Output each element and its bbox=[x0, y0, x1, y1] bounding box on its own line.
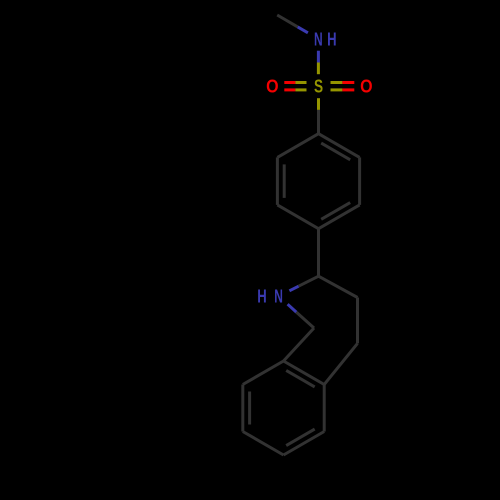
svg-text:H: H bbox=[257, 288, 266, 308]
aromatic inner double-bond lines (lower ring) bbox=[286, 370, 315, 387]
svg-text:N: N bbox=[274, 287, 283, 307]
bond N-S bbox=[317, 51, 320, 63]
svg-text:O: O bbox=[266, 76, 278, 97]
benzene ring (upper, sulfonyl phenyl) bbox=[319, 134, 360, 158]
bond C(aryl)-C3 (benzylic) bbox=[317, 229, 320, 277]
svg-text:O: O bbox=[360, 76, 372, 97]
bond S-C(aryl) bbox=[317, 98, 320, 110]
benzene ring (lower, fused benzazepine) bbox=[284, 361, 325, 385]
svg-text:N: N bbox=[314, 30, 323, 50]
double bond S=O (left) bbox=[284, 81, 295, 84]
svg-text:S: S bbox=[314, 77, 323, 97]
svg-text:H: H bbox=[327, 30, 336, 50]
bond N2-C3 bbox=[289, 286, 298, 291]
bond CH3-N (methyl to sulfonamide N) bbox=[277, 15, 298, 27]
double bond S=O (right) bbox=[331, 81, 343, 84]
bond N2-C1 bbox=[288, 304, 297, 312]
azepine ring carbon edges bbox=[319, 276, 358, 297]
aromatic inner double-bond lines (upper ring) bbox=[321, 143, 350, 160]
